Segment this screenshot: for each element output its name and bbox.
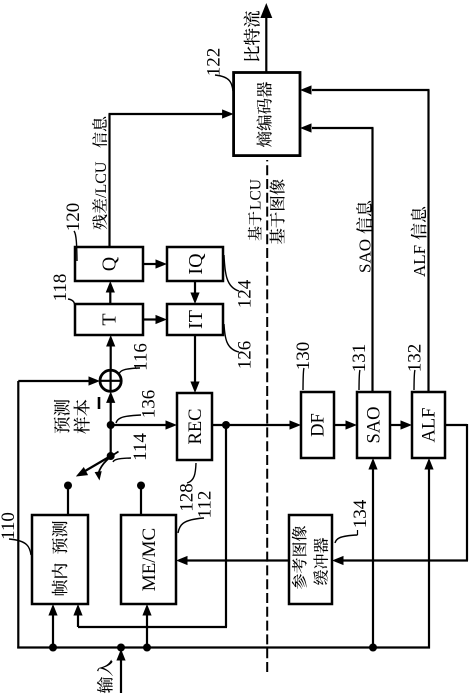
ALF info wire to entropy — [300, 85, 430, 392]
prediction sample label (预测样本) — [54, 400, 90, 434]
svg-text:116: 116 — [131, 343, 152, 371]
label 120 — [63, 203, 84, 261]
switch pivot junction — [107, 452, 115, 460]
block Intra Prediction 110 (帧内预测) — [32, 515, 88, 604]
label 130 — [293, 342, 314, 390]
junction bus-intra — [49, 644, 57, 652]
wire ME/MC to contact — [140, 486, 142, 516]
svg-text:132: 132 — [405, 344, 426, 373]
block ALF 132 — [412, 392, 445, 458]
label bitstream (比特流) — [244, 11, 260, 61]
svg-text:ALF: ALF — [410, 245, 429, 277]
block REC reconstruction 128 — [177, 393, 212, 460]
label 110 — [0, 512, 31, 555]
block DF deblocking filter 130 — [301, 392, 334, 458]
svg-text:SAO: SAO — [365, 406, 385, 443]
label 118 — [50, 274, 75, 307]
wire bus down to adder — [18, 376, 100, 385]
minus sign at adder input — [98, 397, 101, 409]
svg-text:130: 130 — [293, 342, 314, 371]
wire bus to SAO — [368, 458, 377, 648]
wire IT to REC — [190, 335, 199, 393]
label 116 — [119, 343, 152, 374]
label 112 — [178, 491, 216, 533]
block IQ inverse quantizer 124 — [167, 247, 223, 281]
block Entropy Coder 122 (熵编码器) — [234, 73, 300, 156]
wire IQ to IT — [190, 281, 199, 304]
junction prediction/REC branch — [107, 421, 115, 429]
bitstream arrow — [260, 3, 272, 73]
wire ALF to reference picture buffer — [332, 424, 468, 565]
label 126 — [224, 324, 256, 369]
svg-text:T: T — [99, 313, 121, 325]
svg-text:REC: REC — [186, 409, 206, 445]
svg-text:112: 112 — [195, 491, 216, 519]
label 131 — [349, 344, 370, 390]
adder 116 (circle plus) — [100, 370, 121, 391]
svg-text:Q: Q — [99, 256, 121, 271]
block Q quantizer 120 — [75, 247, 143, 281]
junction REC output feedback — [222, 421, 230, 429]
svg-text:110: 110 — [0, 512, 19, 540]
input bus top horizontal wire — [17, 381, 19, 649]
svg-text:120: 120 — [63, 203, 84, 232]
wire intra to contact — [67, 486, 69, 516]
svg-text:114: 114 — [130, 433, 151, 461]
svg-text:136: 136 — [139, 390, 160, 419]
svg-text:ALF: ALF — [420, 408, 440, 443]
wire prediction branch down to REC — [111, 420, 177, 429]
ME/MC output contact node — [137, 482, 145, 490]
label SAO info (SAO 信息) — [356, 201, 375, 273]
label residual/LCU info (残差/LCU 信息) — [92, 117, 110, 230]
junction bus-SAO feed — [369, 644, 377, 652]
wire bus to intra — [48, 604, 57, 648]
wire Q to entropy coder (residual/LCU info) — [109, 109, 234, 247]
switch toggle arc — [95, 452, 119, 481]
label 128 — [177, 463, 198, 512]
wire DF to SAO — [334, 420, 357, 429]
svg-text:SAO: SAO — [356, 239, 375, 273]
svg-text:/LCU: /LCU — [93, 161, 110, 198]
label 132 — [405, 344, 426, 390]
wire adder to T — [106, 335, 115, 370]
label 134 — [335, 499, 371, 543]
label picture-based (基于图像) — [270, 179, 285, 244]
block ME/MC 112 — [121, 515, 176, 604]
input arrow wire — [116, 649, 125, 693]
block T transform 118 — [75, 304, 143, 335]
svg-text:118: 118 — [50, 274, 71, 302]
label LCU-based (基于LCU) — [247, 179, 264, 241]
label ALF info (ALF 信息) — [410, 207, 429, 277]
wire Q to IQ — [143, 259, 167, 268]
svg-text:131: 131 — [349, 344, 370, 373]
SAO info wire to entropy — [300, 123, 374, 392]
block IT inverse transform 126 — [167, 304, 223, 335]
dashed LCU-based/picture-based separator line — [266, 160, 268, 672]
wire REC to DF — [212, 420, 301, 429]
svg-text:DF: DF — [309, 413, 329, 437]
switch arm to intra contact — [76, 456, 111, 477]
block SAO 131 — [357, 392, 390, 458]
svg-text:134: 134 — [350, 499, 371, 528]
feedback wire to intra — [73, 425, 227, 627]
wire bus to ME/MC — [142, 604, 151, 648]
wire T to Q — [106, 281, 115, 304]
label 122 — [204, 48, 234, 91]
svg-text:124: 124 — [235, 279, 256, 308]
svg-text:ME/MC: ME/MC — [139, 528, 160, 591]
label 136 — [116, 390, 160, 423]
junction bus-ME/MC — [143, 644, 151, 652]
wire T to IT — [143, 315, 167, 324]
junction input/bus — [117, 644, 125, 652]
svg-text:126: 126 — [235, 341, 256, 370]
svg-text:122: 122 — [204, 48, 225, 77]
wire SAO to ALF — [390, 420, 412, 429]
label 124 — [224, 255, 256, 308]
wire reference picture buffer to ME/MC — [176, 556, 289, 565]
input label (输入) — [97, 660, 113, 693]
intra output contact node — [64, 482, 72, 490]
svg-text:128: 128 — [177, 483, 198, 512]
svg-text:IT: IT — [185, 310, 207, 329]
prediction sample wire to adder — [106, 391, 115, 456]
svg-text:LCU: LCU — [247, 179, 264, 210]
wire bus corner to ALF — [424, 458, 433, 649]
svg-text:IQ: IQ — [185, 253, 207, 275]
input bus vertical wire — [17, 646, 430, 648]
block Reference Picture Buffer 134 (参考图像缓冲器) — [289, 515, 332, 604]
label 114 — [113, 433, 151, 462]
